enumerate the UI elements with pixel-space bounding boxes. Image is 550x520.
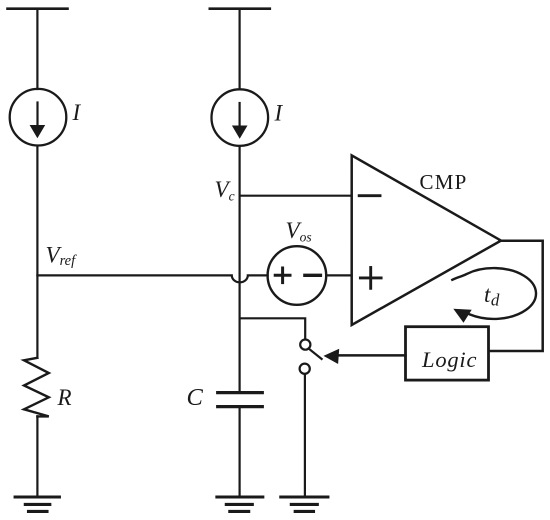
svg-text:C: C — [187, 384, 204, 411]
svg-text:Logic: Logic — [421, 347, 477, 372]
svg-text:R: R — [57, 385, 72, 410]
svg-text:I: I — [72, 100, 82, 125]
svg-text:I: I — [274, 101, 284, 126]
svg-text:CMP: CMP — [420, 170, 468, 194]
